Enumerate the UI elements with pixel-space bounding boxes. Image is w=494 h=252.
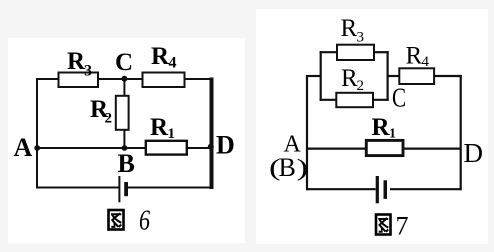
svg-text:R: R — [341, 65, 358, 92]
svg-text:7: 7 — [396, 212, 409, 241]
wire: R1 to D — [187, 147, 214, 149]
wire: R2 to loop bottom-right (node C) — [373, 99, 389, 101]
svg-text:): ) — [297, 155, 309, 181]
svg-text:R: R — [151, 43, 170, 70]
label R3 — [67, 48, 92, 80]
wire: loop left vertical — [320, 51, 322, 101]
label R1 — [150, 114, 175, 142]
wire: stub C down to R2 — [123, 79, 125, 97]
wire: loop bottom to R2 — [320, 99, 337, 101]
battery (right circuit): left long plate — [376, 176, 379, 203]
svg-text:C: C — [115, 49, 133, 76]
label (B) (right) — [269, 153, 308, 182]
resistor R4 box — [143, 73, 185, 88]
wire: right vertical thick (to D) — [210, 78, 214, 190]
wire: left vertical A branch — [36, 78, 38, 189]
battery (right circuit): right short plate — [384, 180, 388, 199]
svg-text:R: R — [341, 15, 358, 42]
wire: node C to R4 — [124, 78, 144, 80]
wire: loop to R4 — [388, 75, 400, 77]
svg-text:B: B — [279, 153, 296, 182]
right scan panel — [256, 9, 488, 244]
wire: R4 to top-right corner — [434, 75, 462, 77]
caption 图 glyph (left) — [109, 210, 124, 230]
svg-text:R: R — [372, 114, 391, 141]
wire: battery to bottom right — [390, 188, 462, 190]
wire: middle A to R1 — [306, 148, 367, 150]
label R4 (right) — [406, 43, 430, 71]
wire: middle A to R1 — [36, 147, 147, 149]
svg-text:2: 2 — [105, 111, 113, 127]
wire: R3 to loop top-right — [374, 51, 389, 53]
battery (left circuit): long thin plate — [118, 176, 120, 202]
wire: R3 to node C — [97, 78, 125, 80]
svg-text:3: 3 — [84, 63, 92, 80]
label C (right) — [392, 83, 406, 113]
wire: R1 to D rail — [402, 148, 461, 150]
svg-text:3: 3 — [357, 30, 365, 46]
wire: right vertical rail (D) — [460, 75, 462, 190]
resistor R3 box — [59, 73, 99, 88]
svg-text:A: A — [14, 133, 33, 162]
label R1 (right, bold) — [372, 114, 397, 142]
resistor R1 box — [146, 141, 187, 155]
svg-text:B: B — [118, 149, 135, 178]
node C dot — [121, 76, 127, 82]
svg-text:R: R — [406, 43, 423, 70]
wire: top, corner to R3 — [36, 78, 59, 80]
svg-text:1: 1 — [389, 127, 396, 142]
node D dot — [208, 144, 214, 150]
label R2 (right) — [341, 65, 364, 94]
node B dot — [122, 145, 128, 151]
node A dot — [34, 145, 40, 151]
wire: R4 to top-right corner — [184, 78, 212, 80]
wire: bottom left to battery — [306, 188, 376, 190]
svg-text:2: 2 — [357, 78, 365, 94]
battery (left circuit): short thick plate — [124, 182, 128, 196]
svg-text:R: R — [150, 114, 169, 141]
wire: battery to bottom-right corner — [128, 187, 214, 189]
left scan panel — [8, 38, 245, 243]
label R2 — [90, 96, 112, 127]
caption 图 glyph (right) — [376, 215, 391, 235]
svg-text:D: D — [216, 131, 235, 160]
wire: stub from left rail to parallel loop — [306, 75, 322, 77]
label R3 (right) — [341, 15, 365, 46]
resistor R2 box (vertical) — [116, 96, 129, 130]
svg-text:4: 4 — [169, 55, 177, 72]
label R4 — [151, 43, 177, 72]
svg-text:6: 6 — [139, 204, 150, 237]
wire: bottom, corner to battery — [36, 187, 120, 189]
resistor R4 box (right) — [399, 68, 434, 84]
wire: loop right vertical — [387, 51, 389, 101]
svg-text:D: D — [464, 138, 484, 168]
svg-text:4: 4 — [422, 54, 430, 70]
svg-text:C: C — [392, 83, 406, 113]
wire: loop top to R3 — [320, 51, 338, 53]
resistor R1 box (right, bold) — [366, 140, 403, 155]
wire: stub R2 down to B — [123, 129, 125, 149]
resistor R3 box (right) — [337, 45, 374, 60]
caption numeral 6 (left) — [139, 204, 150, 237]
svg-text:1: 1 — [168, 126, 176, 142]
resistor R2 box (right) — [336, 93, 373, 107]
wire: left vertical rail (A) — [306, 75, 308, 190]
